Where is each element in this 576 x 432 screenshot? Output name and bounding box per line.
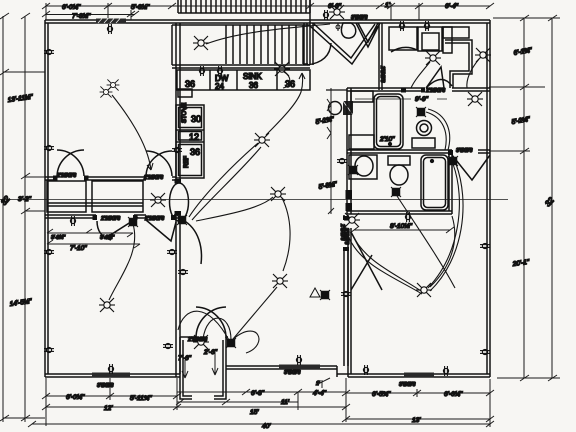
wall bottom-left (double) xyxy=(45,373,180,375)
light kitchen sink xyxy=(274,62,290,76)
toilet bottom bath xyxy=(388,156,410,165)
svg-text:6'-5¾": 6'-5¾" xyxy=(372,391,391,398)
svg-text:15': 15' xyxy=(250,409,259,416)
door top bath pointed xyxy=(426,67,452,88)
window top-left xyxy=(96,19,126,24)
svg-text:5'-8½": 5'-8½" xyxy=(131,3,150,11)
outlet bath hall xyxy=(337,158,347,163)
svg-text:40': 40' xyxy=(262,423,271,430)
wire hall switch to hall light xyxy=(196,197,273,221)
wall right (double) xyxy=(486,23,488,374)
svg-text:3'0X6'8: 3'0X6'8 xyxy=(456,148,473,154)
wire bath corner to bedroom4 light xyxy=(430,216,455,287)
svg-text:3'0X6'8: 3'0X6'8 xyxy=(284,370,301,376)
svg-text:13': 13' xyxy=(412,417,421,424)
svg-text:6'-0¼": 6'-0¼" xyxy=(66,394,85,401)
stairwell bottom wall xyxy=(172,64,310,66)
dim left ticks xyxy=(0,13,30,421)
wire bedroom4 switch to light xyxy=(428,164,459,288)
vanity top bath lower xyxy=(349,135,374,149)
light bedroom3 xyxy=(272,274,288,288)
closet shelf boxes top right xyxy=(443,27,469,38)
outlet bedroom4 bottom 2 xyxy=(443,366,448,376)
wall y215 segments xyxy=(45,214,96,216)
toilet top bath xyxy=(417,121,432,136)
dim right inner line xyxy=(523,18,525,378)
svg-text:7'-6": 7'-6" xyxy=(178,355,192,362)
wire top bath switch to wall xyxy=(426,112,446,150)
tub bottom bath xyxy=(421,155,448,210)
door V bedroom2 xyxy=(356,23,380,47)
wire hall switch to dining light double xyxy=(189,143,258,217)
living bottom wall y177 segments xyxy=(45,176,57,178)
svg-text:6'-6¼": 6'-6¼" xyxy=(444,391,463,398)
outlet wall kitchen west xyxy=(167,249,177,254)
kitchen wall vertical x176 xyxy=(175,23,177,182)
wire laundry light to door xyxy=(411,62,430,88)
svg-text:36: 36 xyxy=(190,147,200,157)
wire kitchen sink hook xyxy=(283,72,290,88)
window bedroom4 bottom xyxy=(404,373,434,378)
svg-text:3'0X6'8: 3'0X6'8 xyxy=(351,15,368,21)
washer box xyxy=(389,27,417,50)
svg-text:2'10X6'8: 2'10X6'8 xyxy=(143,175,163,181)
light wall hall west xyxy=(150,193,166,207)
svg-text:3'0X6'8: 3'0X6'8 xyxy=(97,383,114,389)
dryer box xyxy=(418,27,442,51)
light stairwell xyxy=(193,36,209,50)
svg-text:2'10X6'8: 2'10X6'8 xyxy=(144,216,164,222)
stairs hatch lower xyxy=(225,25,227,64)
light bath hall xyxy=(344,213,360,227)
svg-text:3'0X6'8: 3'0X6'8 xyxy=(399,382,416,388)
vanity bottom bath xyxy=(349,155,377,179)
closet wall top right xyxy=(445,40,472,88)
svg-text:7'-10": 7'-10" xyxy=(70,245,87,252)
bath bottom wall y211 xyxy=(347,210,452,212)
outlet bedroom4 bottom 1 xyxy=(363,365,368,375)
door arc bedroom3 top xyxy=(183,220,201,264)
svg-text:9'-9": 9'-9" xyxy=(415,96,429,103)
vanity top bath upper xyxy=(351,91,373,102)
closet door 2 diagonals xyxy=(146,220,176,241)
dim interior bedroom2L xyxy=(47,232,133,234)
powder toilet xyxy=(329,102,342,115)
dim vestibule arrow 2-6 xyxy=(212,352,218,375)
outlet stove wall xyxy=(172,147,182,152)
outlet bedroom3 east xyxy=(341,291,351,296)
dim interior bedroom4 xyxy=(354,229,450,231)
svg-text:36: 36 xyxy=(185,79,195,89)
switch top bath xyxy=(416,107,426,117)
wire bedroom3 light to vestibule switch xyxy=(233,287,277,339)
window bottom-left xyxy=(92,373,130,378)
wire stairs light to back door switch xyxy=(206,24,330,44)
svg-text:3'0X6'8: 3'0X6'8 xyxy=(343,228,349,245)
light bath sink top xyxy=(467,92,483,106)
wall x305 below top xyxy=(303,23,305,64)
bedroom2 bottom wall / bath top wall xyxy=(347,87,425,89)
dim vestibule arrow 7-6 xyxy=(182,360,188,378)
outlet bedroom2L top xyxy=(70,216,75,226)
svg-text:12: 12 xyxy=(189,132,199,142)
dim 1ft step xyxy=(318,378,330,388)
svg-text:2'10X6'8: 2'10X6'8 xyxy=(56,173,76,179)
wall bottom-right (double) xyxy=(348,373,490,375)
svg-text:2'10": 2'10" xyxy=(379,136,395,143)
dim bottom extenders xyxy=(45,378,47,426)
closet door 1 arc+diag xyxy=(97,221,111,240)
svg-text:6'-8": 6'-8" xyxy=(251,390,265,397)
outlet bedroom4 east 1 xyxy=(480,243,490,248)
switch back door xyxy=(336,25,340,29)
bedroom3 east wall x345 xyxy=(343,215,345,220)
tub top bath xyxy=(374,94,403,149)
dim top extenders xyxy=(45,3,47,20)
door leaf oval kitchen xyxy=(170,183,189,221)
light vestibule xyxy=(193,335,209,349)
outlet bedroom3 bottom xyxy=(296,355,301,365)
closet boxes xyxy=(47,181,86,212)
bath mid wall y151 xyxy=(347,149,452,151)
dim top row1 xyxy=(46,5,490,7)
small box below counter xyxy=(178,89,192,97)
outlet bedroom3 west xyxy=(178,269,188,274)
svg-text:11': 11' xyxy=(281,399,290,406)
svg-text:REF: REF xyxy=(184,156,190,168)
outlet back door xyxy=(323,10,328,20)
door V bedroom4 from bath xyxy=(452,155,490,180)
wire dining light up to hall switch xyxy=(266,73,303,135)
wire bedroom2L switch to light xyxy=(109,224,135,300)
jack bedroom3 a xyxy=(310,288,320,297)
door arcs bedroom1 crossed xyxy=(57,150,84,176)
svg-text:36: 36 xyxy=(249,81,258,90)
svg-text:7'-8½": 7'-8½" xyxy=(72,12,91,20)
svg-text:2'10X6'8: 2'10X6'8 xyxy=(100,216,120,222)
outlet bedroom2L bottom xyxy=(108,364,113,374)
svg-text:30: 30 xyxy=(191,114,201,124)
vestibule door arcs crossed xyxy=(196,307,226,338)
outlet bedroom4 east 2 xyxy=(480,349,490,354)
switch vestibule xyxy=(226,338,236,348)
dim left connectors xyxy=(3,71,45,73)
outlet top wall living xyxy=(107,24,112,34)
svg-text:6'-6": 6'-6" xyxy=(328,3,342,10)
stairwell box xyxy=(172,24,310,26)
svg-text:8'-10½": 8'-10½" xyxy=(390,222,413,230)
wall left (double) xyxy=(44,20,46,377)
dim right connectors xyxy=(493,17,560,19)
wall x381 xyxy=(378,23,380,90)
closet door arc xyxy=(391,47,417,52)
bedroom4 west wall xyxy=(347,228,349,377)
switch closet bedroom2L xyxy=(128,217,138,227)
dim left inner line xyxy=(24,16,26,422)
kitchen cabinets row xyxy=(177,70,310,90)
svg-text:12': 12' xyxy=(104,405,113,412)
window bedroom3 bottom xyxy=(279,365,320,370)
door jamb marks xyxy=(53,88,453,221)
svg-text:2'-6": 2'-6" xyxy=(203,349,218,356)
light closet top right xyxy=(475,48,491,62)
svg-text:6'-4": 6'-4" xyxy=(445,3,459,10)
svg-text:2'10X6'8: 2'10X6'8 xyxy=(425,88,445,94)
jack bedroom3 b xyxy=(320,290,330,300)
switch bath door jamb xyxy=(348,165,358,175)
svg-text:6'-0¼": 6'-0¼" xyxy=(62,4,81,11)
powder room top wall xyxy=(326,89,347,91)
stairs upper band xyxy=(177,0,179,13)
svg-text:2'10X6'8: 2'10X6'8 xyxy=(187,337,207,343)
bath east wall x450 xyxy=(448,153,450,211)
light exterior back door xyxy=(329,5,345,19)
wire bedroom4 light west xyxy=(352,234,421,291)
light hall xyxy=(270,187,286,201)
dim 9-9 bath xyxy=(355,98,447,100)
svg-text:3'-9¼": 3'-9¼" xyxy=(51,235,65,241)
switch bottom bath xyxy=(391,187,401,197)
svg-text:4'-4": 4'-4" xyxy=(313,390,327,397)
living door2 arch crossed xyxy=(146,151,172,176)
svg-text:5'-11¾": 5'-11¾" xyxy=(130,395,152,402)
dim left outer line xyxy=(2,16,4,422)
stairs hatch upper xyxy=(180,0,182,13)
outlet left wall 2 xyxy=(44,145,54,150)
svg-text:24: 24 xyxy=(215,82,224,91)
svg-text:3'-9¼": 3'-9¼" xyxy=(100,235,114,241)
outlet vestibule xyxy=(163,343,173,348)
outlet kitchen counter 2 xyxy=(217,66,222,76)
door V hall xyxy=(310,26,378,64)
dim bottom rows xyxy=(46,395,177,397)
svg-text:SINK: SINK xyxy=(243,72,262,81)
outlet laundry 1 xyxy=(399,21,404,31)
centerline xyxy=(0,199,508,201)
switch bedroom4 xyxy=(448,156,458,166)
wall bottom bedroom3 xyxy=(226,365,337,367)
dim right outer line xyxy=(551,18,553,378)
outlet left wall 3 xyxy=(44,249,54,254)
outlet laundry 2 xyxy=(424,21,429,31)
dim vestibule 4ft xyxy=(180,401,226,403)
wire vestibule loops xyxy=(203,318,231,340)
bath west wall x347 xyxy=(346,88,348,214)
outlet bath bottom wall xyxy=(405,212,410,222)
wall step bedroom3/4 xyxy=(336,366,338,377)
light laundry xyxy=(425,51,441,65)
light living room double xyxy=(100,86,113,97)
wire closet light bedroom2R xyxy=(467,59,479,88)
kitchen wall lower to bottom xyxy=(175,214,177,377)
svg-text:36: 36 xyxy=(285,79,295,89)
svg-text:3'-2": 3'-2" xyxy=(18,196,32,203)
dim top row2 xyxy=(46,14,135,16)
door V bedroom4 west xyxy=(351,232,382,290)
wall top (double) xyxy=(45,19,490,21)
outlet kitchen counter 1 xyxy=(199,66,204,76)
dim interior vert x331 xyxy=(330,88,332,214)
light bedroom4 xyxy=(416,283,432,297)
svg-text:1': 1' xyxy=(385,2,391,9)
stove ref stack xyxy=(176,105,204,178)
wire bottom bath switch down xyxy=(397,196,455,288)
svg-text:STOVE: STOVE xyxy=(182,103,188,123)
wire living light to door xyxy=(112,95,151,170)
back door leaf xyxy=(341,23,355,38)
light bedroom2L xyxy=(99,298,115,312)
outlet left wall 4 xyxy=(44,347,54,352)
wire hall light down to bedroom3 light xyxy=(282,198,290,271)
light dining xyxy=(254,133,270,147)
outlet left wall 1 xyxy=(44,49,54,54)
svg-text:2'8X6'8: 2'8X6'8 xyxy=(379,65,385,83)
dim right ticks xyxy=(520,15,557,381)
door arc hall west xyxy=(307,43,331,65)
switch hall kitchen xyxy=(177,215,187,225)
